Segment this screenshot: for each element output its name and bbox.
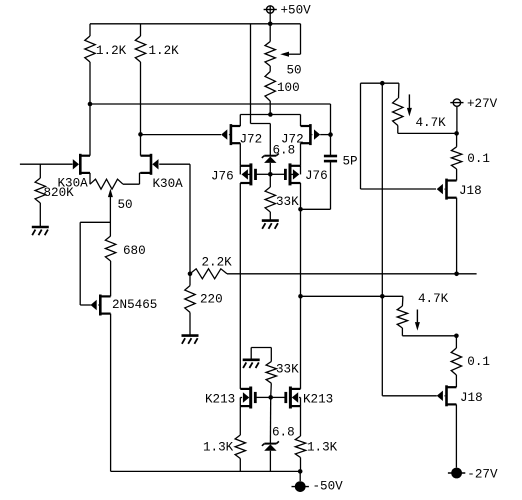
wire input to left K30A gate (20, 163, 73, 165)
resistor R15 0.1 (451, 147, 461, 169)
transistor Q3 J72 (left) (230, 124, 233, 145)
wire left K213 source to 1.3K (239, 406, 241, 435)
svg-text:J72: J72 (240, 132, 263, 146)
svg-text:1.3K: 1.3K (307, 441, 338, 455)
wire left K213 gate (256, 396, 270, 398)
node node A (left collector rail tap) (88, 102, 93, 107)
resistor R3 50 (trim) (265, 42, 275, 67)
wire +50V terminal drop (269, 6, 271, 24)
wire 1.2K R1 to K30A drain (89, 62, 91, 156)
wire 33K top lead (269, 174, 271, 187)
wire 0.1 lower top lead (455, 336, 457, 348)
wire -50V drop (299, 471, 301, 481)
wire 820K top lead (39, 164, 41, 178)
wire pot top lead (269, 24, 271, 42)
svg-text:K30A: K30A (153, 177, 184, 191)
wire R7 wiper down (109, 195, 111, 236)
wire feedback node down (189, 164, 191, 274)
svg-text:0.1: 0.1 (467, 152, 490, 166)
svg-text:J76: J76 (305, 169, 328, 183)
wire 680 to 2N5465 drain (110, 261, 112, 296)
wire left J76 source lead (long) (239, 183, 241, 389)
svg-text:K213: K213 (205, 393, 235, 407)
power terminal +50V (267, 6, 274, 13)
node node lower J18 gate (380, 294, 385, 299)
wire 220 to ground (189, 312, 191, 335)
wire 1.2K R1 top lead (89, 24, 91, 36)
wire left K30A source lead (89, 173, 91, 184)
wire bottom rail (111, 470, 301, 472)
wire right J72 gate (320, 134, 330, 136)
wire +27V top rail (361, 82, 399, 84)
resistor R12 1.3K (235, 435, 245, 459)
node node J76 gates / zener / 33K (268, 172, 273, 177)
resistor R11 33K (266, 362, 276, 384)
wire upper J18 gate line (360, 83, 362, 189)
wire right K213 gate (271, 396, 285, 398)
svg-text:J18: J18 (460, 391, 483, 405)
svg-text:50: 50 (118, 198, 133, 212)
wire 2N5465 gate drop (79, 222, 81, 305)
wire 4.7K tap column (381, 83, 383, 296)
transistor Q7 2N5465 (99, 295, 102, 316)
wire between 50 and 100 (269, 66, 271, 72)
node rail/+50V junction (268, 22, 273, 27)
svg-text:33K: 33K (276, 363, 299, 377)
resistor R6 820K (35, 178, 45, 203)
svg-text:50: 50 (287, 64, 302, 78)
wire 1.2K R2 top lead (140, 24, 142, 36)
wire 4.7K upper bottom lead (397, 126, 399, 134)
svg-text:1.3K: 1.3K (203, 441, 234, 455)
svg-text:+27V: +27V (467, 97, 498, 111)
wire 4.7K upper top lead (398, 83, 400, 98)
wire rail to zener D1 (jog) (250, 24, 252, 124)
wire J72 drain rail (240, 114, 300, 116)
wire upper J18 source to output (456, 198, 458, 274)
resistor R1 1.2K (85, 36, 95, 62)
transistor Q9 K213 (right) (289, 387, 292, 409)
resistor R8 680 (105, 236, 115, 261)
svg-text:4.7K: 4.7K (418, 292, 449, 306)
wire right K30A source tap (140, 172, 151, 174)
node node 4.7K rail tap (380, 81, 385, 86)
transistor Q2 K30A (right) (150, 154, 153, 175)
wire lower J18 gate line (381, 296, 383, 396)
node node cap return (298, 207, 303, 212)
wire 0.1 lower to J18 drain (455, 375, 457, 387)
wire source pot right segment (123, 183, 140, 185)
wire 820K to ground (39, 203, 41, 226)
resistor R13 1.3K (295, 436, 305, 458)
wire 33K to ground (269, 212, 271, 220)
current arrow (4.7K upper) (408, 94, 410, 108)
trimpot R7 wiper arrow (108, 189, 113, 198)
svg-text:2N5465: 2N5465 (112, 298, 157, 312)
capacitor C1 5P (324, 155, 337, 158)
transistor Q10 J18 (upper) (445, 179, 448, 200)
wire 4.7K lower top lead (401, 296, 404, 306)
resistor R9 2.2K (190, 269, 227, 279)
svg-text:680: 680 (123, 244, 146, 258)
wire right J72 drain lead (300, 115, 302, 127)
node node output / J18 source (454, 272, 459, 277)
wire 1.3K right to bottom rail (300, 458, 302, 472)
wire 0.1 upper to J18 drain (456, 169, 458, 181)
svg-text:1.2K: 1.2K (96, 44, 127, 58)
svg-text:2.2K: 2.2K (202, 256, 233, 270)
wire left J72 source lead (239, 143, 241, 166)
ground (820K) (32, 226, 49, 229)
wire 4.7K lower top line (301, 295, 403, 297)
wire top +50V rail (90, 23, 301, 25)
wire left J72 drain lead (239, 115, 241, 127)
node node K213 gates (268, 395, 273, 400)
node node cascode drain rail (268, 112, 273, 117)
wire lower J18 source to -27V (455, 404, 457, 467)
wire right J72 source lead (300, 143, 302, 166)
transistor Q5 J76 (left) (249, 163, 252, 185)
node node right J76 source tap (298, 294, 303, 299)
resistor R14 4.7K (393, 98, 403, 125)
svg-text:+50V: +50V (281, 4, 312, 18)
ground (220) (182, 334, 199, 337)
wire 2N5465 source to bottom rail (110, 314, 112, 472)
wire 4.7K lower bottom lead (401, 328, 403, 336)
wire ground stub to 33K lower (inverted U) (250, 348, 252, 360)
svg-text:-27V: -27V (467, 468, 498, 482)
node node +27V / 0.1 (454, 131, 459, 136)
node node J72 gate tap (138, 132, 143, 137)
resistor R16 4.7K (397, 306, 407, 328)
wire zener D1 anode to J76 gates (269, 163, 271, 174)
wire 1.3K left to bottom rail (239, 459, 241, 472)
ground (33K upper) (262, 219, 279, 222)
transistor Q11 J18 (lower) (445, 385, 448, 406)
svg-text:100: 100 (277, 81, 300, 95)
svg-text:1.2K: 1.2K (149, 44, 180, 58)
svg-text:220: 220 (200, 293, 223, 307)
wire +27V to node (456, 106, 458, 133)
resistor R2 1.2K (135, 36, 145, 62)
transistor Q6 J76 (right) (289, 163, 292, 185)
transistor Q1 K30A (left) (79, 154, 82, 175)
transistor Q4 J72 (right) (309, 124, 312, 145)
ground (33K lower) (243, 358, 260, 361)
resistor R5 33K (265, 187, 275, 212)
svg-text:5P: 5P (343, 155, 358, 169)
wire right K213 source to 1.3K (300, 406, 302, 436)
wire trimpot wiper branch (300, 24, 302, 54)
node node 0.1 lower (454, 334, 459, 339)
wire output line (227, 273, 477, 275)
svg-text:0.1: 0.1 (467, 355, 490, 369)
resistor R4 100 (265, 72, 275, 102)
wire zener D2 to bottom rail (269, 451, 271, 472)
svg-text:K213: K213 (303, 393, 333, 407)
wire 220 top lead (189, 274, 191, 286)
power terminal -27V (451, 468, 462, 479)
wire node A to cap column (90, 103, 331, 105)
node node right J72 gate / cap (328, 132, 333, 137)
node node -50V (298, 469, 303, 474)
resistor R7 50 (source trim) (90, 179, 123, 189)
svg-text:33K: 33K (276, 195, 299, 209)
svg-text:820K: 820K (44, 186, 75, 200)
zener diode D2 6.8 (264, 443, 276, 445)
trimpot wiper arrow (280, 52, 289, 57)
power terminal +27V (453, 99, 460, 106)
wire cap top lead from node A line (330, 104, 332, 156)
svg-text:J18: J18 (459, 184, 482, 198)
zener diode D1 6.8 (264, 155, 276, 157)
node node feedback / 2.2K (188, 272, 193, 277)
wire wiper tap to 2N5465 gate (80, 221, 110, 223)
wire 33K lower to K213 gates (270, 383, 273, 397)
current arrow (4.7K lower) (416, 310, 418, 323)
svg-text:-50V: -50V (313, 480, 344, 494)
wire right J76 source lead (long) (300, 183, 302, 389)
resistor R17 0.1 (451, 348, 461, 375)
wire right K30A gate to feedback (159, 163, 190, 165)
wire 0.1 upper top lead (456, 133, 458, 146)
wire right J76 gate (270, 173, 284, 175)
wire 1.2K R2 to K30A drain (140, 62, 142, 156)
power terminal -50V (295, 481, 306, 492)
transistor Q8 K213 (left) (249, 387, 252, 409)
svg-text:6.8: 6.8 (272, 426, 295, 440)
wire left J76 gate (257, 173, 271, 175)
wire left J72 gate (141, 134, 222, 136)
wire cap bottom to right J76 source (330, 161, 332, 209)
wire 100 bottom lead (269, 101, 271, 115)
svg-text:4.7K: 4.7K (416, 116, 447, 130)
svg-text:J76: J76 (211, 170, 234, 184)
wire K213 gates to zener D2 (269, 397, 271, 443)
resistor R10 220 (185, 286, 195, 313)
